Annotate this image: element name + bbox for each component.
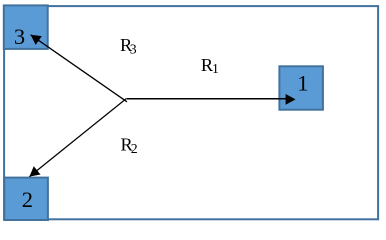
svg-text:2: 2 [131, 141, 138, 156]
svg-text:1: 1 [212, 61, 219, 76]
svg-text:3: 3 [14, 24, 25, 49]
svg-text:3: 3 [130, 42, 137, 57]
svg-text:1: 1 [297, 70, 308, 95]
svg-text:2: 2 [22, 187, 33, 212]
